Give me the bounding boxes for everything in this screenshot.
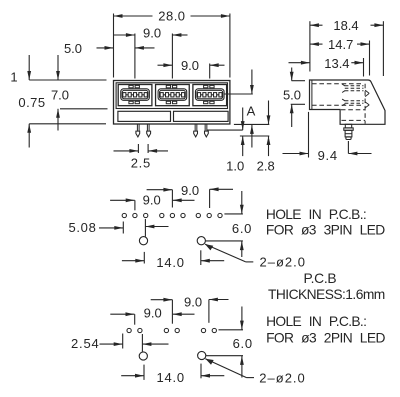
svg-text:28.0: 28.0	[158, 8, 185, 23]
svg-text:5.0: 5.0	[64, 41, 82, 56]
3-pin dim 5.08 ticks	[122, 222, 124, 234]
svg-text:9.0: 9.0	[144, 306, 162, 321]
leader line module3 centerline	[224, 93, 253, 95]
2-pin dim 14.0	[135, 374, 144, 378]
2-pin dim 2.54 ticks	[122, 334, 124, 349]
svg-text:FOR ø3 3PIN LED: FOR ø3 3PIN LED	[266, 222, 385, 237]
side view: lower box hidden top	[341, 109, 365, 111]
side view: hidden rect bottom	[312, 104, 363, 106]
left extension line top edge	[29, 79, 106, 81]
2-pin dim 6.0: upper leader	[219, 329, 244, 331]
dim 9.0 second (module2-module3)	[163, 63, 172, 67]
dim 28.0 extension lines	[113, 14, 115, 78]
svg-text:P.C.B: P.C.B	[304, 271, 337, 286]
dim 2.8 bottom arrow	[267, 136, 271, 145]
LED module at x-center 209.25	[193, 85, 227, 106]
svg-text:THICKNESS:1.6mm: THICKNESS:1.6mm	[268, 287, 385, 302]
side view: hole chamfer upper-left	[342, 84, 345, 86]
3-pin dim 5.08 arrows	[114, 226, 123, 230]
2-pin pattern: peg hole left	[139, 352, 147, 360]
front view: outer body	[114, 81, 230, 125]
svg-text:2.54: 2.54	[71, 336, 100, 351]
svg-text:5.08: 5.08	[68, 220, 96, 235]
3-pin dim 9.0 right	[171, 190, 173, 208]
svg-text:9.0: 9.0	[181, 58, 199, 73]
2-pin dim 14.0 ticks	[143, 365, 145, 380]
svg-text:2–ø2.0: 2–ø2.0	[260, 254, 306, 269]
dim 5.0 side: bottom line	[291, 103, 305, 105]
leg shoulder line	[207, 129, 243, 131]
side view: hole apex upper-right	[365, 90, 369, 93]
dim 1.0 top arrow	[241, 121, 245, 130]
dim A top arrow	[250, 85, 254, 94]
svg-text:9.0: 9.0	[181, 183, 199, 198]
dim 28.0	[114, 14, 123, 18]
svg-text:7.0: 7.0	[51, 88, 69, 103]
3-pin dim 6.0: lower leader	[206, 240, 243, 242]
2-pin dim 6.0: lower leader	[206, 355, 243, 357]
dim 18.4	[310, 23, 319, 27]
dim 9.4 extension lines	[308, 112, 310, 158]
dim 9.0 first (module1-module2)	[126, 33, 135, 37]
svg-text:13.4: 13.4	[324, 56, 349, 71]
svg-text:6.0: 6.0	[233, 336, 253, 351]
front view: inner upper rect	[116, 83, 227, 109]
side view: hidden rect top	[312, 83, 363, 85]
mounting leg at x 195.5	[194, 124, 198, 137]
module pitch extension lines	[134, 34, 136, 79]
svg-text:9.4: 9.4	[318, 148, 338, 163]
dim A bottom arrow	[250, 125, 254, 134]
side view: solid outline	[310, 80, 386, 124]
side dims extension lines	[309, 21, 311, 71]
2-pin pattern: small holes	[127, 328, 131, 332]
svg-text:14.7: 14.7	[328, 37, 353, 52]
dim 1.0 bottom arrow	[241, 136, 245, 145]
mounting leg at x 137.75	[136, 124, 140, 137]
svg-text:HOLE IN P.C.B.:: HOLE IN P.C.B.:	[266, 207, 366, 222]
2-pin pattern: peg hole right	[198, 351, 206, 359]
mounting leg at x 147.75	[147, 124, 151, 137]
3-pin dim 9.0 left: line and arrows	[126, 198, 135, 202]
svg-text:18.4: 18.4	[333, 18, 358, 33]
svg-text:5.0: 5.0	[283, 87, 301, 102]
2-pin 2-dia-2.0 leader	[205, 359, 246, 378]
svg-text:HOLE IN P.C.B.:: HOLE IN P.C.B.:	[266, 314, 366, 329]
dim 5.0 side: top line	[292, 80, 306, 82]
mounting leg at x 205.5	[205, 124, 209, 137]
left extension line mid (7.0)	[60, 108, 108, 110]
side view: snap pin	[344, 124, 353, 139]
side view: hidden vertical right	[364, 84, 366, 124]
svg-text:6.0: 6.0	[232, 221, 252, 236]
LED module at x-center 171.9	[156, 85, 190, 106]
dim 0.75 arrow	[27, 124, 31, 133]
svg-text:9.0: 9.0	[184, 295, 202, 310]
2-pin dim 9.0 left	[126, 312, 135, 316]
side view: hidden hole upper rows	[345, 85, 364, 87]
side view: hole apex lower-right	[365, 102, 369, 105]
3-pin dim 6.0: upper leader	[224, 213, 243, 215]
3-pin dim 14.0 ticks	[143, 252, 145, 264]
svg-text:A: A	[247, 103, 256, 118]
3-pin 2-dia-2.0 leader	[205, 244, 246, 262]
svg-text:9.0: 9.0	[143, 192, 161, 207]
side view: hole chamfer lower-left	[342, 99, 345, 101]
dim 13.4	[301, 61, 310, 65]
3-pin dim 14.0	[135, 259, 144, 263]
svg-text:FOR ø3 2PIN LED: FOR ø3 2PIN LED	[266, 330, 385, 345]
svg-text:2–ø2.0: 2–ø2.0	[259, 370, 305, 385]
3-pin pattern: peg hole left	[139, 237, 147, 245]
front view: base compartment right	[174, 111, 229, 121]
dim 9.4	[300, 152, 309, 156]
svg-text:1: 1	[10, 70, 17, 85]
dim 1 arrows	[27, 71, 31, 80]
2-pin dim 9.0 right	[171, 300, 173, 324]
svg-text:9.0: 9.0	[143, 25, 161, 40]
3-pin pattern: peg hole right	[197, 237, 205, 245]
3-pin pattern: small holes	[122, 213, 126, 217]
dim 2.5 arrows	[129, 149, 138, 153]
front view: base compartment left	[118, 111, 171, 121]
svg-text:14.0: 14.0	[156, 370, 185, 385]
dim 2.8 top arrow	[267, 115, 271, 124]
svg-text:2.5: 2.5	[131, 156, 151, 171]
svg-text:2.8: 2.8	[257, 159, 275, 174]
dim 7.0 arrow	[56, 109, 60, 118]
side view: lower box hidden bottom	[342, 119, 366, 121]
svg-text:0.75: 0.75	[18, 95, 45, 110]
dim 14.7	[310, 42, 319, 46]
svg-text:1.0: 1.0	[226, 159, 244, 174]
side view: hidden hole lower rows	[345, 100, 364, 102]
side view: inner left wall	[311, 81, 313, 110]
LED module at x-center 134.55	[118, 85, 152, 106]
left extension line bottom	[29, 123, 106, 125]
2-pin dim 2.54 arrows	[114, 342, 123, 346]
svg-text:14.0: 14.0	[156, 255, 185, 270]
dim 2.5 ticks	[137, 144, 139, 153]
extension line A bottom / 2.8 top	[234, 123, 269, 125]
leg tip line	[240, 135, 269, 137]
